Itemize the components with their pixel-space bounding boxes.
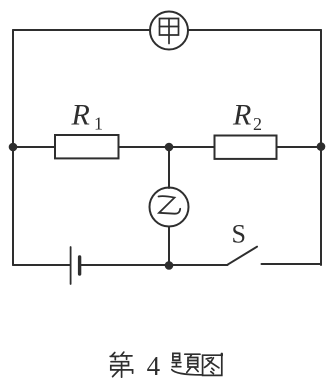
svg-text:R: R	[232, 99, 251, 132]
wire bottom left	[13, 264, 70, 266]
meter 乙 circle	[150, 188, 189, 227]
wire node to switch	[169, 264, 228, 266]
node middle junction dot	[165, 143, 174, 152]
wire top-right segment	[188, 29, 321, 31]
battery cell short plate	[78, 257, 81, 274]
caption glyph 图	[203, 354, 222, 376]
wire switch to right	[262, 263, 322, 265]
wire battery to node	[81, 264, 169, 266]
wire meter branch lower	[168, 227, 170, 266]
battery cell long plate	[70, 247, 72, 284]
wire middle center	[119, 146, 215, 148]
caption glyph 第	[110, 352, 132, 377]
caption glyph 题	[172, 353, 202, 375]
switch S lever	[228, 247, 258, 265]
svg-text:S: S	[232, 220, 246, 249]
node left junction dot	[9, 143, 18, 152]
svg-text:R: R	[71, 99, 90, 132]
wire middle right	[277, 146, 322, 148]
svg-text:4: 4	[147, 351, 161, 381]
meter 乙 glyph	[159, 196, 181, 214]
svg-text:2: 2	[253, 114, 262, 134]
wire middle left	[13, 146, 55, 148]
svg-text:1: 1	[94, 114, 103, 134]
node right junction dot	[317, 142, 326, 151]
wire top-left segment	[13, 29, 150, 31]
wire meter branch upper	[168, 147, 170, 188]
meter 甲 circle	[150, 12, 188, 50]
wire left vertical	[12, 30, 14, 265]
resistor R2 body	[215, 136, 277, 159]
wire right vertical	[320, 30, 322, 265]
node bottom junction dot	[165, 261, 174, 270]
resistor R1 body	[55, 135, 119, 158]
meter 甲 glyph	[160, 19, 179, 44]
